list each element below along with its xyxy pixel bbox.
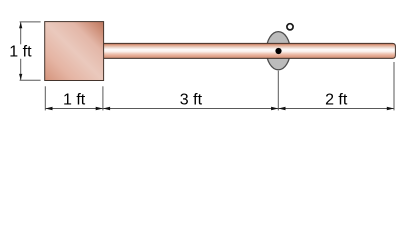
svg-text:1 ft: 1 ft (9, 44, 32, 61)
svg-text:1 ft: 1 ft (63, 92, 86, 109)
arrow right end (2 ft) (387, 107, 394, 110)
arrow right of 3 ft (271, 107, 278, 110)
arrow left end (1 ft) (45, 107, 52, 110)
extension line below pivot (277, 71, 279, 111)
arrow down (1 ft vertical) (19, 74, 22, 80)
extension line below block left (44, 86, 46, 110)
svg-text:3 ft: 3 ft (180, 92, 203, 109)
arrow left of 2 ft (278, 107, 285, 110)
pivot point (black dot) (275, 48, 281, 54)
arrow right of 1 ft (96, 107, 103, 110)
extension line below block right (102, 86, 104, 110)
arrow up (1 ft vertical) (19, 22, 22, 28)
extension line top of block (left dim) (20, 21, 41, 23)
left vertical dimension line upper segment (20, 22, 22, 44)
extension line bottom of block (left dim) (20, 79, 41, 81)
bottom dimension line (45, 108, 394, 110)
block (1 ft square) (45, 22, 104, 81)
pivot collar (gray ellipse) (266, 32, 290, 70)
arrow left of 3 ft (103, 107, 110, 110)
svg-text:2 ft: 2 ft (325, 92, 348, 109)
extension line below rod end (393, 62, 395, 110)
rod (slender bar) (104, 43, 396, 58)
left vertical dimension line lower segment (20, 59, 22, 80)
pivot label O (287, 24, 293, 30)
